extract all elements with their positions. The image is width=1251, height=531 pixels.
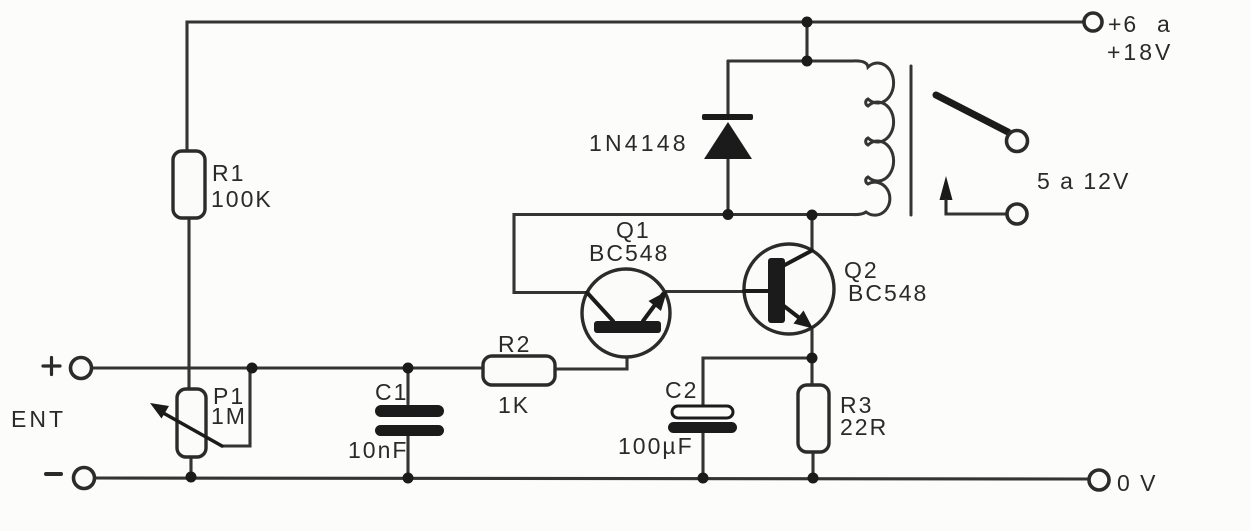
svg-text:5 a 12V: 5 a 12V <box>1037 168 1130 194</box>
svg-text:0 V: 0 V <box>1117 470 1158 496</box>
svg-text:10nF: 10nF <box>348 437 408 463</box>
svg-text:1M: 1M <box>211 403 247 429</box>
svg-text:1N4148: 1N4148 <box>589 130 689 156</box>
svg-text:C1: C1 <box>375 379 408 405</box>
svg-text:ENT: ENT <box>11 406 66 432</box>
svg-text:1K: 1K <box>498 392 530 418</box>
svg-text:R1: R1 <box>212 160 245 186</box>
svg-text:+18V: +18V <box>1107 39 1173 65</box>
svg-text:22R: 22R <box>840 414 888 440</box>
svg-text:BC548: BC548 <box>589 240 669 266</box>
svg-text:a: a <box>1157 11 1172 37</box>
svg-text:100K: 100K <box>211 186 273 212</box>
svg-text:C2: C2 <box>665 377 698 403</box>
svg-text:100µF: 100µF <box>618 433 694 459</box>
svg-text:+6: +6 <box>1108 11 1138 37</box>
svg-text:R2: R2 <box>498 331 531 357</box>
svg-text:BC548: BC548 <box>848 280 928 306</box>
